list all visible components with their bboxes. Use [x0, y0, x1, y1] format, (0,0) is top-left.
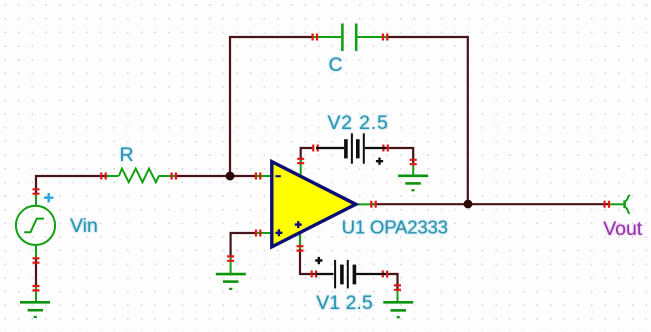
- svg-text:Vout: Vout: [603, 218, 643, 240]
- svg-text:V1 2.5: V1 2.5: [316, 292, 373, 314]
- svg-text:R: R: [120, 144, 134, 166]
- svg-text:U1 OPA2333: U1 OPA2333: [342, 217, 448, 238]
- svg-text:V2 2.5: V2 2.5: [328, 112, 389, 134]
- svg-text:Vin: Vin: [70, 215, 98, 237]
- svg-text:C: C: [329, 54, 343, 76]
